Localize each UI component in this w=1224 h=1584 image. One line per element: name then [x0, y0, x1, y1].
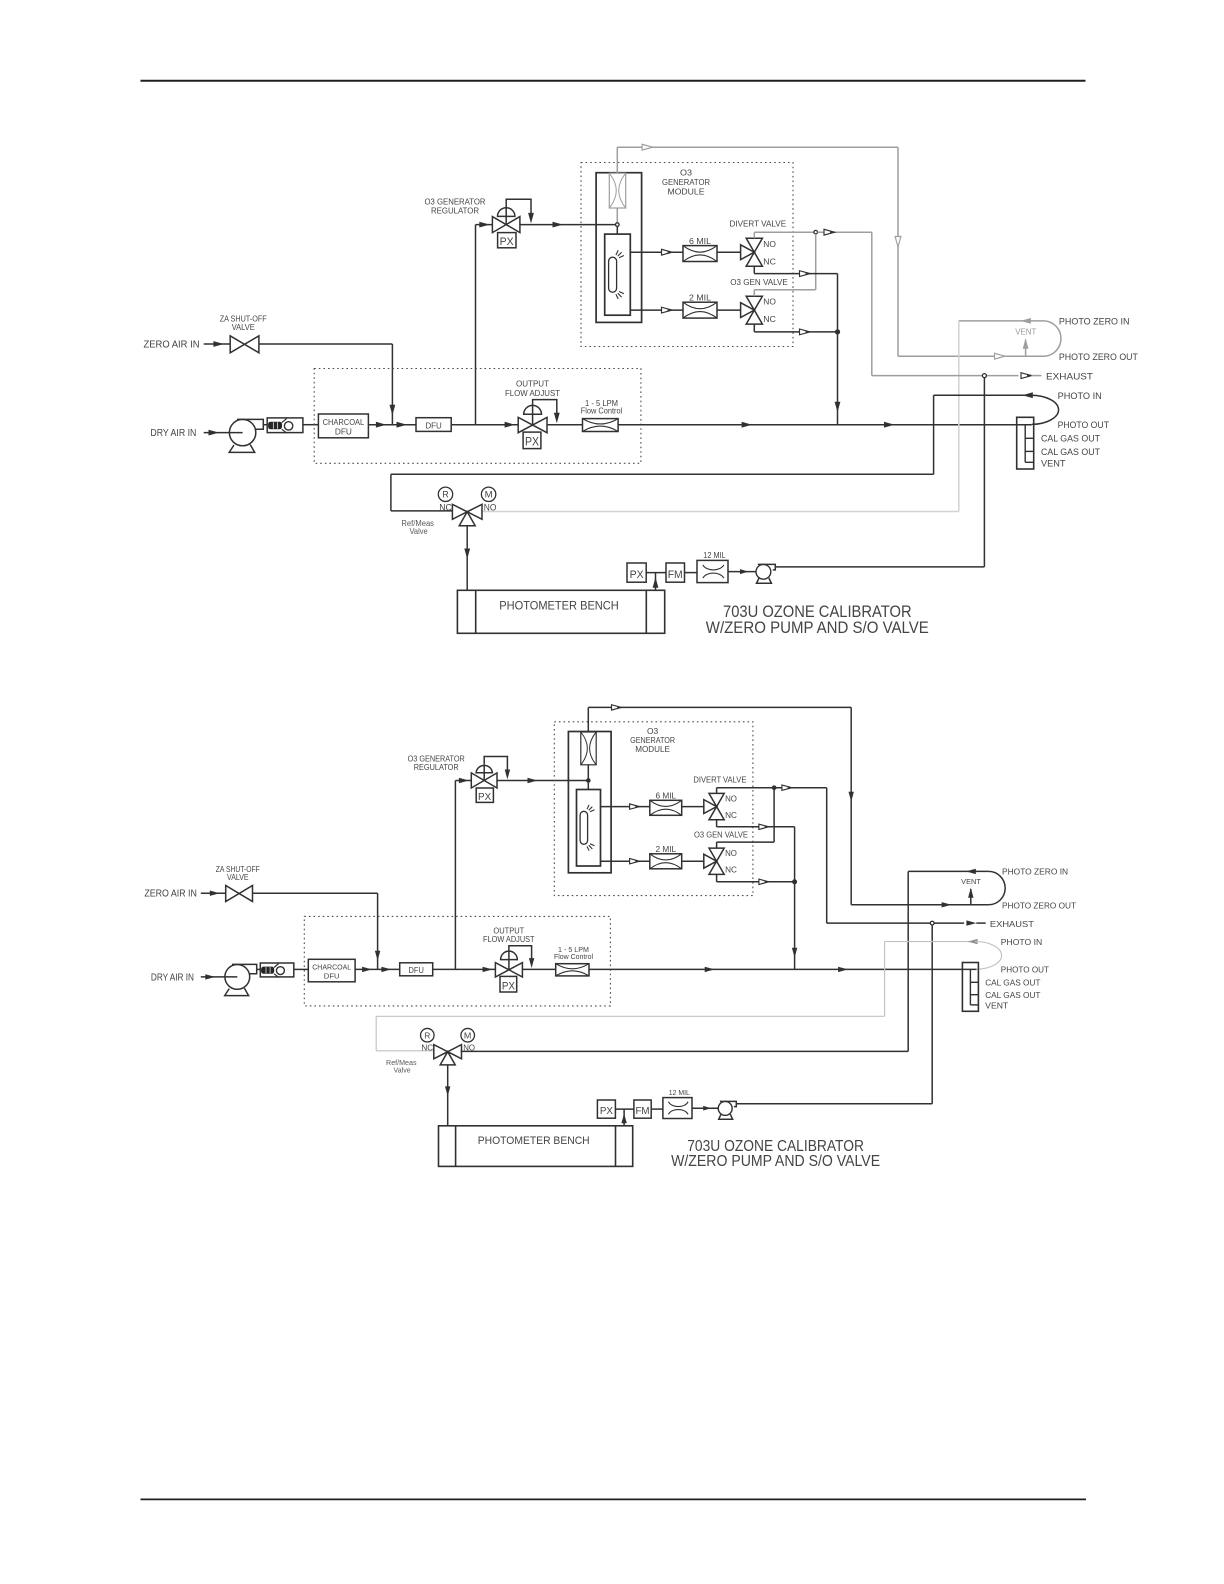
wire pump to check valve: [263, 424, 267, 426]
svg-text:NO: NO: [763, 296, 776, 306]
arrow regulator feedback: [528, 213, 534, 224]
svg-text:CAL GAS OUT: CAL GAS OUT: [985, 977, 1040, 987]
svg-text:PHOTO IN: PHOTO IN: [1058, 391, 1102, 401]
valve o3gen top triangle (lower diagram): [709, 848, 724, 861]
valve OFA dome: [524, 405, 542, 414]
orifice 1-5 LPM venturi (lower diagram): [556, 964, 589, 976]
arrow 6mil in (lower diagram): [630, 804, 640, 809]
svg-text:FM: FM: [668, 569, 683, 581]
wire photo zero in (lower diagram): [908, 870, 988, 872]
wire 6mil to divert valve (lower diagram): [682, 806, 704, 808]
svg-text:REGULATOR: REGULATOR: [414, 763, 459, 772]
arrow refmeas outlet (lower diagram): [445, 1086, 450, 1096]
lamp tube: [609, 257, 617, 292]
wire fm to 12mil (lower diagram): [651, 1108, 663, 1110]
wire check valve out: [303, 424, 319, 426]
manifold divider 3: [1025, 461, 1034, 463]
check valve CV1 spring (lower diagram): [262, 967, 274, 973]
wire check valve out (lower diagram): [294, 968, 309, 970]
svg-text:NC: NC: [421, 1043, 433, 1053]
valve o3gen left triangle: [741, 303, 755, 318]
wire dry-air inlet (lower diagram): [201, 976, 238, 978]
restrictor module (lower diagram): [581, 732, 596, 765]
wire node to exhaust drop: [818, 231, 872, 233]
wire module feed horiz: [617, 146, 898, 148]
valve refmeas right triangle: [467, 504, 482, 519]
valve divert left triangle (lower diagram): [704, 800, 717, 814]
junction NC outputs (lower diagram): [793, 880, 797, 884]
valve regulator stem: [505, 208, 507, 225]
svg-text:DRY AIR IN: DRY AIR IN: [151, 972, 194, 983]
wire ref drop: [390, 474, 392, 511]
arrow pump inlet (lower diagram): [703, 1106, 711, 1111]
manifold divider 2: [1025, 450, 1034, 452]
svg-text:PX: PX: [630, 569, 645, 581]
wire photo zero in drop (lower diagram): [907, 871, 909, 1051]
arrow zero-air (lower diagram): [210, 891, 220, 896]
pump P1 body (lower diagram): [225, 964, 250, 989]
dashed box air conditioning: [314, 369, 641, 464]
wire 2mil to o3gen valve (lower diagram): [682, 860, 704, 862]
wire regulator supply drop: [475, 225, 477, 425]
wire exhaust tail (lower diagram): [976, 922, 985, 924]
check valve CV1 seat (lower diagram): [274, 964, 279, 978]
arrow za drop: [390, 405, 396, 416]
svg-text:PHOTO OUT: PHOTO OUT: [1001, 964, 1049, 974]
wire module feed top stub (lower diagram): [587, 707, 589, 732]
svg-text:NC: NC: [725, 811, 737, 820]
lamp rays bottom: [616, 292, 624, 300]
valve ZA shut-off (lower diagram): [226, 886, 253, 902]
wire photo in riser: [933, 395, 935, 474]
arrow regulator inlet: [479, 222, 490, 228]
wire photo in (lower diagram): [885, 941, 975, 943]
wire pump output: [775, 566, 984, 568]
wire divert NO to node: [754, 231, 814, 233]
wire exhaust drop: [871, 232, 873, 375]
lamp rays bottom (lower diagram): [587, 844, 595, 851]
lamp tube (lower diagram): [580, 811, 588, 844]
wire node to exhaust drop (lower diagram): [776, 787, 827, 789]
arrow photo in (lower diagram): [968, 939, 978, 944]
wire exhaust run: [872, 375, 1019, 377]
wire main output: [618, 424, 1032, 426]
arrow NC junction drop (lower diagram): [792, 948, 797, 958]
arrow exhaust (lower diagram): [966, 920, 976, 925]
svg-text:PHOTO ZERO OUT: PHOTO ZERO OUT: [1002, 901, 1076, 911]
wire regulator inlet: [476, 224, 493, 226]
arrow vent stub (lower diagram): [968, 888, 973, 898]
module inner box (lower diagram): [568, 732, 611, 873]
lamp rays top (lower diagram): [587, 805, 595, 812]
check valve CV1 ball: [284, 422, 292, 430]
pump P2 volute (lower diagram): [720, 1101, 736, 1106]
arrow regulator inlet (lower diagram): [459, 778, 469, 783]
lamp rays top: [616, 250, 624, 257]
wire 6mil to divert valve: [717, 251, 741, 253]
wire pump riser: [983, 378, 985, 567]
arrow 2mil in: [662, 307, 673, 313]
wire meas return (lower diagram): [461, 1050, 909, 1052]
svg-text:CAL GAS OUT: CAL GAS OUT: [985, 990, 1040, 1000]
svg-text:FM: FM: [635, 1106, 649, 1117]
port R circle (lower diagram): [421, 1028, 435, 1042]
arrow photo in: [1022, 392, 1033, 398]
node regulator-module: [616, 223, 620, 227]
arrow divert NC out (lower diagram): [759, 824, 769, 829]
photometer bench body: [457, 590, 664, 633]
arrow main 2 (lower diagram): [381, 967, 391, 972]
sensor PX box regulator (lower diagram): [476, 788, 493, 802]
arrow 6mil in: [662, 249, 673, 255]
wire za to drop: [259, 343, 393, 345]
arrow NC junction drop: [835, 402, 841, 413]
bench cap right: [645, 590, 647, 633]
svg-text:DFU: DFU: [324, 972, 340, 981]
svg-text:GENERATOR: GENERATOR: [630, 736, 675, 745]
wire za to drop (lower diagram): [253, 892, 378, 894]
wire px to fm: [646, 572, 666, 574]
wire charcoal to dfu: [368, 424, 416, 426]
arrow main 2: [397, 422, 408, 428]
orifice 2 MIL venturi (lower diagram): [650, 854, 682, 869]
svg-text:PX: PX: [525, 437, 539, 449]
arrow dry-air: [209, 430, 220, 436]
svg-text:O3 GEN VALVE: O3 GEN VALVE: [730, 277, 788, 287]
arrow bench sample (lower diagram): [621, 1113, 626, 1123]
pump P1 base: [229, 445, 255, 453]
svg-text:PX: PX: [600, 1106, 613, 1117]
manifold divider 1 (lower diagram): [970, 981, 978, 983]
wire regulator feedback: [506, 199, 531, 216]
svg-text:VENT: VENT: [961, 877, 981, 886]
arrow main 1 (lower diagram): [362, 967, 372, 972]
dashed box air conditioning (lower diagram): [304, 916, 610, 1006]
wire za drop (lower diagram): [377, 893, 379, 969]
svg-text:R: R: [424, 1030, 430, 1040]
wire divert NC down: [753, 266, 755, 273]
sensor PX box regulator: [498, 233, 516, 248]
wire restrictor to node: [616, 208, 618, 223]
wire meas return: [481, 511, 959, 513]
orifice 2 MIL body: [683, 302, 717, 318]
wire pump riser (lower diagram): [931, 925, 933, 1104]
svg-text:NO: NO: [725, 849, 737, 858]
svg-text:R: R: [442, 490, 449, 500]
wire dfu to valve (lower diagram): [433, 968, 496, 970]
wire OFA feedback: [533, 400, 557, 415]
svg-text:PHOTO IN: PHOTO IN: [1001, 937, 1042, 947]
manifold divider 3 (lower diagram): [970, 1004, 978, 1006]
node divert vent (lower diagram): [772, 786, 775, 789]
wire 12mil to pump (lower diagram): [692, 1107, 719, 1109]
svg-text:OUTPUT: OUTPUT: [493, 926, 524, 935]
valve refmeas bottom triangle (lower diagram): [440, 1052, 455, 1065]
svg-text:DRY AIR IN: DRY AIR IN: [150, 427, 196, 439]
svg-text:PHOTOMETER BENCH: PHOTOMETER BENCH: [478, 1135, 590, 1147]
wire refmeas outlet: [466, 526, 468, 591]
svg-text:CAL GAS OUT: CAL GAS OUT: [1041, 447, 1100, 457]
lamp box (lower diagram): [577, 790, 601, 867]
wire lamp to 2mil: [630, 309, 683, 311]
valve output flow adjust (lower diagram): [495, 963, 522, 977]
arrow photo zero in: [1020, 318, 1031, 324]
arrow module feed (lower diagram): [612, 705, 622, 710]
arrow regulator out (lower diagram): [528, 778, 538, 783]
valve divert left triangle: [741, 245, 755, 260]
valve divert top triangle: [746, 238, 762, 252]
wire refmeas outlet (lower diagram): [447, 1065, 449, 1126]
svg-text:ZERO AIR IN: ZERO AIR IN: [144, 888, 197, 899]
valve O3 regulator: [492, 217, 520, 233]
wire za drop: [391, 344, 393, 425]
sensor PX box OFA (lower diagram): [500, 976, 517, 992]
arrow main 5 (lower diagram): [838, 967, 848, 972]
port M circle (lower diagram): [461, 1028, 475, 1042]
arrow photo zero in (lower diagram): [966, 869, 976, 874]
svg-text:Valve: Valve: [409, 527, 428, 536]
wire valve to orifice (lower diagram): [522, 968, 555, 970]
valve o3gen bottom triangle: [746, 310, 762, 324]
svg-text:CHARCOAL: CHARCOAL: [312, 963, 351, 972]
arrow o3gen NC out (lower diagram): [759, 879, 769, 884]
wire node down: [815, 234, 817, 290]
wire ref drop (lower diagram): [375, 1016, 377, 1051]
manifold divider vertical: [1024, 424, 1026, 462]
wire exhaust run (lower diagram): [827, 922, 964, 924]
check valve CV1 spring: [269, 422, 282, 429]
node exhaust: [982, 374, 986, 378]
wire o3gen NC down: [753, 324, 755, 332]
pump P2 base: [757, 578, 772, 583]
arrow regulator out: [553, 222, 564, 228]
svg-text:PX: PX: [500, 236, 515, 248]
sensor FM box: [666, 563, 685, 582]
valve regulator dome: [498, 208, 515, 217]
svg-text:Flow Control: Flow Control: [581, 407, 623, 416]
wire px to fm (lower diagram): [615, 1108, 634, 1110]
restrictor module venturi (lower diagram): [581, 732, 596, 765]
arrow dry-air (lower diagram): [205, 974, 215, 979]
orifice 2 MIL venturi: [683, 302, 717, 318]
svg-text:DIVERT VALVE: DIVERT VALVE: [730, 219, 787, 229]
wire divert NO up (lower diagram): [716, 788, 718, 794]
valve OFA stem (lower diagram): [508, 951, 510, 969]
check valve CV1 seat: [282, 418, 287, 433]
svg-text:PHOTOMETER BENCH: PHOTOMETER BENCH: [499, 598, 619, 612]
arrow module feed: [642, 144, 653, 150]
filter CHARCOAL DFU box (lower diagram): [308, 959, 355, 982]
svg-text:VENT: VENT: [1041, 458, 1066, 468]
lower diagram: [144, 705, 1076, 1170]
wire module feed top stub: [616, 147, 618, 173]
svg-text:O3: O3: [647, 727, 659, 736]
valve regulator stem (lower diagram): [483, 765, 485, 781]
orifice 6 MIL venturi: [683, 246, 717, 262]
wire divert NO up: [753, 232, 755, 238]
svg-text:DFU: DFU: [409, 966, 424, 975]
svg-text:REGULATOR: REGULATOR: [431, 205, 479, 215]
arrow zero-air: [213, 341, 224, 347]
svg-text:NC: NC: [763, 314, 776, 324]
wire NC junction drop (lower diagram): [794, 827, 796, 970]
wire node to lamp (lower diagram): [587, 782, 589, 789]
wire lamp to 2mil (lower diagram): [601, 860, 650, 862]
manifold body (lower diagram): [962, 963, 978, 1012]
wire dfu to valve: [451, 424, 518, 426]
wire node down horiz (lower diagram): [717, 841, 775, 843]
arrow photo zero out (lower diagram): [942, 902, 952, 907]
bench cap right (lower diagram): [615, 1126, 617, 1167]
dashed box O3 generator module (lower diagram): [554, 722, 753, 896]
page bottom rule: [141, 1498, 1087, 1500]
orifice 12 MIL body (lower diagram): [663, 1098, 692, 1119]
restrictor module venturi: [609, 173, 625, 208]
wire o3gen NO stub (lower diagram): [716, 842, 718, 848]
orifice 6 MIL body (lower diagram): [650, 800, 682, 815]
filter DFU box (lower diagram): [400, 963, 433, 976]
wire divert NC out (lower diagram): [717, 826, 795, 828]
svg-text:PHOTO ZERO OUT: PHOTO ZERO OUT: [1059, 352, 1138, 362]
wire vent stub (lower diagram): [970, 889, 972, 905]
pump P2 body: [756, 564, 771, 579]
svg-text:VALVE: VALVE: [232, 322, 255, 332]
valve o3gen bottom triangle (lower diagram): [709, 861, 724, 874]
arrow exhaust: [1021, 373, 1032, 379]
wire node to lamp: [616, 226, 618, 234]
valve output flow adjust: [518, 417, 547, 432]
svg-text:NO: NO: [763, 239, 776, 249]
pump P1 volute (lower diagram): [232, 964, 257, 973]
svg-text:NC: NC: [725, 865, 737, 874]
arrow pump inlet: [740, 569, 749, 574]
module inner box: [596, 173, 642, 323]
wire exhaust tail: [1032, 375, 1042, 377]
pump P1 base (lower diagram): [225, 988, 249, 995]
svg-text:PHOTO ZERO IN: PHOTO ZERO IN: [1002, 867, 1068, 877]
wire regulator supply drop (lower diagram): [454, 781, 456, 970]
wire photo zero out: [898, 355, 1045, 357]
port M circle: [481, 487, 495, 501]
wire pump to check valve (lower diagram): [257, 968, 261, 970]
svg-text:FLOW ADJUST: FLOW ADJUST: [483, 935, 535, 944]
svg-text:W/ZERO PUMP AND S/O VALVE: W/ZERO PUMP AND S/O VALVE: [671, 1153, 880, 1170]
manifold divider 1: [1025, 437, 1034, 439]
wire 2mil to o3gen valve: [717, 309, 741, 311]
orifice 12 MIL venturi (lower diagram): [668, 1102, 688, 1115]
arrow 2mil in (lower diagram): [630, 859, 640, 864]
svg-text:VENT: VENT: [1015, 327, 1036, 336]
arrow main 4 (lower diagram): [705, 967, 715, 972]
svg-text:M: M: [464, 1030, 472, 1040]
svg-text:MODULE: MODULE: [635, 745, 670, 754]
valve refmeas left triangle: [452, 504, 467, 519]
wire OFA feedback (lower diagram): [509, 946, 532, 960]
orifice 1-5 LPM body: [583, 419, 619, 432]
svg-text:NO: NO: [484, 503, 497, 513]
wire bench sample up: [655, 573, 657, 591]
check valve CV1 body (lower diagram): [260, 963, 294, 977]
svg-text:GENERATOR: GENERATOR: [662, 177, 710, 187]
check valve CV1 body: [267, 418, 303, 433]
arrow OFA feedback (lower diagram): [529, 958, 534, 968]
valve OFA stem: [532, 406, 534, 425]
arrow o3gen NC out: [800, 329, 811, 335]
wire module feed horiz (lower diagram): [588, 706, 851, 708]
photo loop arc: [1030, 395, 1059, 424]
valve divert bottom triangle (lower diagram): [709, 807, 724, 820]
svg-text:PHOTO ZERO IN: PHOTO ZERO IN: [1059, 316, 1130, 326]
wire regulator inlet (lower diagram): [455, 780, 471, 782]
wire photo in: [934, 394, 1030, 396]
valve refmeas left triangle (lower diagram): [434, 1045, 448, 1059]
svg-text:6 MIL: 6 MIL: [689, 236, 711, 246]
bench cap left (lower diagram): [455, 1126, 457, 1167]
check valve CV1 spring coils: [273, 422, 277, 429]
orifice 12 MIL body: [697, 560, 728, 582]
sensor PX box bench: [627, 563, 646, 582]
filter DFU box: [416, 418, 451, 432]
dashed box O3 generator module: [581, 163, 793, 347]
photo loop arc (lower diagram): [975, 942, 1002, 970]
svg-text:M: M: [485, 490, 493, 500]
arrow za drop (lower diagram): [375, 951, 380, 961]
svg-text:FLOW ADJUST: FLOW ADJUST: [505, 388, 560, 398]
wire regulator to module (lower diagram): [497, 780, 587, 782]
svg-text:Valve: Valve: [394, 1066, 411, 1075]
arrow photo zero out: [995, 353, 1006, 359]
svg-text:EXHAUST: EXHAUST: [990, 919, 1034, 929]
node divert vent: [814, 230, 818, 234]
lamp box: [605, 234, 631, 315]
svg-text:PHOTO OUT: PHOTO OUT: [1058, 420, 1110, 430]
wire photo in riser (lower diagram): [884, 942, 886, 1017]
svg-text:VALVE: VALVE: [227, 873, 249, 882]
restrictor module: [609, 173, 625, 208]
wire pump output (lower diagram): [736, 1103, 932, 1105]
wire exhaust drop (lower diagram): [826, 788, 828, 923]
valve OFA dome (lower diagram): [501, 951, 518, 959]
svg-text:ZERO AIR IN: ZERO AIR IN: [144, 338, 200, 350]
node regulator-module (lower diagram): [587, 779, 590, 782]
wire photo zero out (lower diagram): [851, 904, 988, 906]
svg-text:O3: O3: [680, 167, 692, 177]
node exhaust (lower diagram): [930, 921, 934, 925]
svg-text:DFU: DFU: [335, 427, 352, 436]
svg-text:VENT: VENT: [985, 1001, 1008, 1011]
arrow regulator feedback (lower diagram): [505, 770, 510, 780]
pump P2 volute: [758, 564, 776, 570]
manifold body: [1017, 417, 1034, 469]
svg-text:2 MIL: 2 MIL: [656, 845, 677, 854]
orifice 6 MIL body: [683, 246, 717, 262]
manifold divider vertical (lower diagram): [969, 969, 971, 1005]
arrow main 4: [742, 422, 753, 428]
svg-text:2 MIL: 2 MIL: [689, 292, 711, 302]
arrow main 1: [376, 422, 387, 428]
upper diagram: [144, 144, 1139, 637]
wire NC junction drop: [837, 274, 839, 425]
wire o3gen NC out (lower diagram): [717, 881, 795, 883]
arrow vent node (lower diagram): [782, 785, 792, 790]
arrow bench sample: [653, 577, 659, 588]
wire lamp to 6mil (lower diagram): [601, 806, 650, 808]
arrow OFA feedback: [554, 413, 560, 424]
photo zero loop arc: [1045, 321, 1061, 356]
svg-text:DFU: DFU: [425, 420, 441, 430]
svg-text:EXHAUST: EXHAUST: [1046, 372, 1094, 382]
wire bench sample up (lower diagram): [623, 1109, 625, 1126]
